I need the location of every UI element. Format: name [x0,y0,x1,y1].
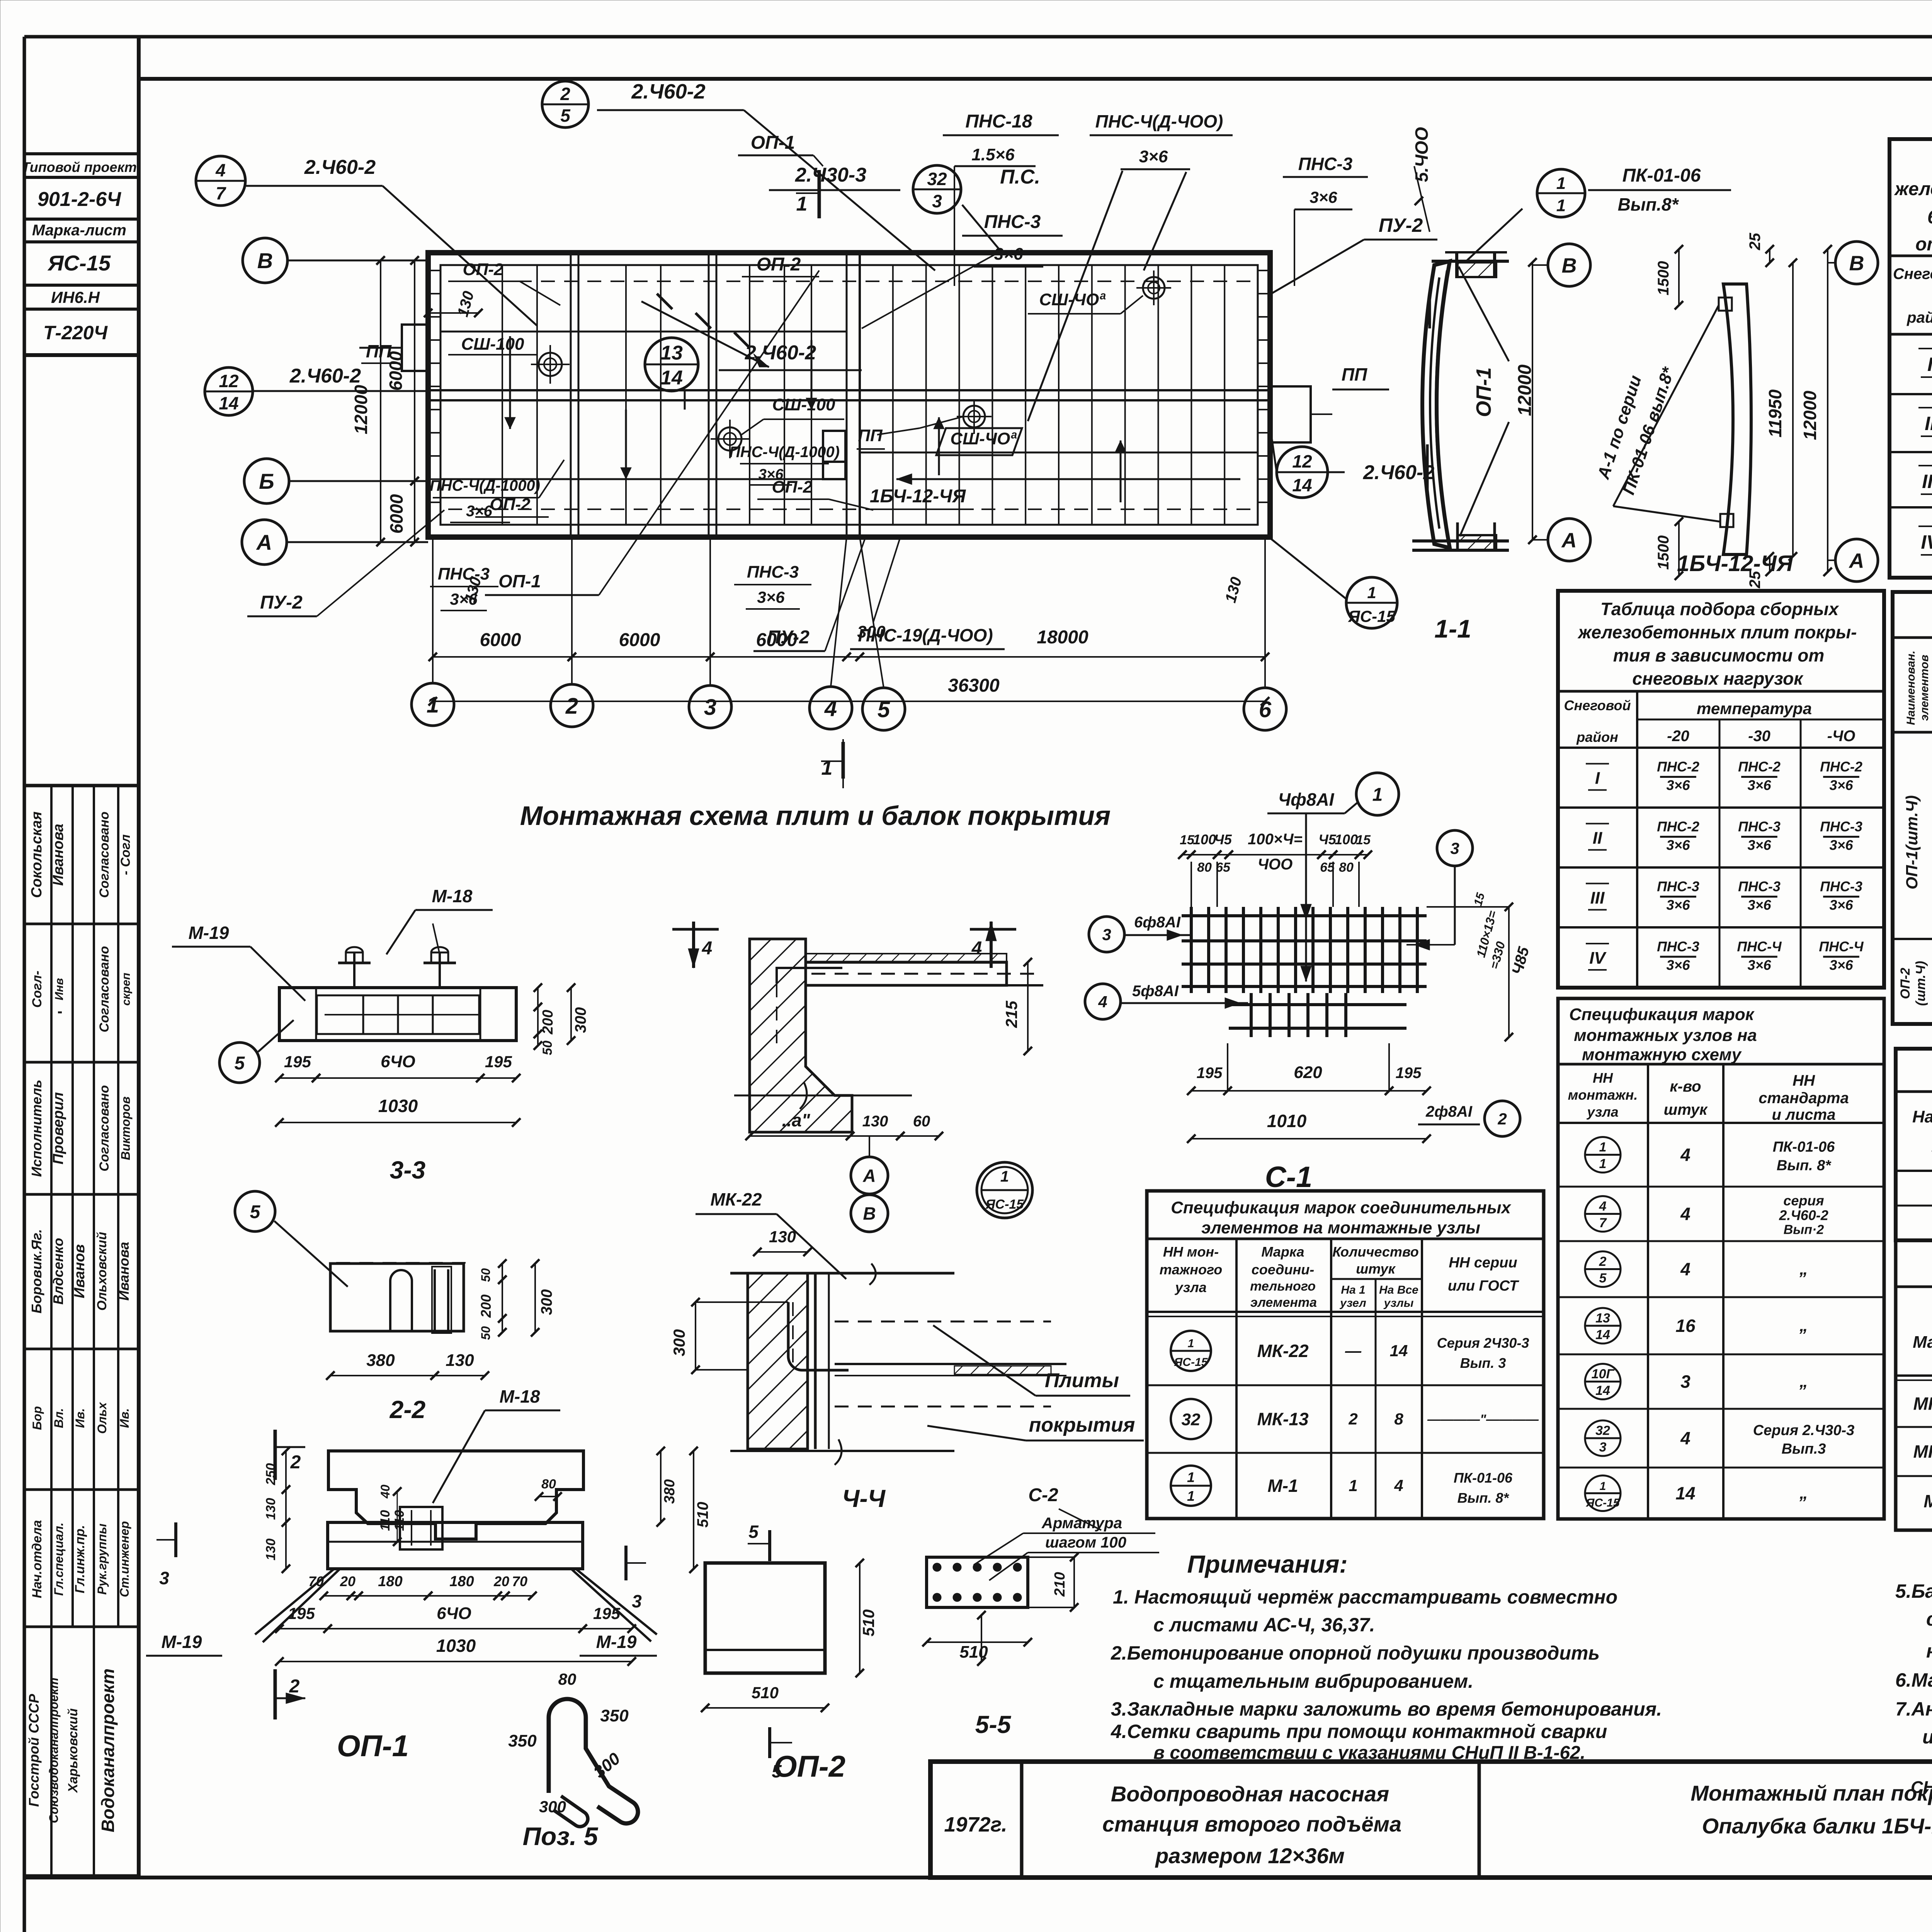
circle 1/АС-15 double [977,1162,1032,1218]
svg-text:Согласовано: Согласовано [97,1085,112,1172]
svg-text:Ив.: Ив. [117,1408,131,1428]
svg-text:ПК-01-06: ПК-01-06 [1773,1139,1835,1155]
plan: СШ-100 symbol center [718,427,742,451]
svg-text:ΠНС-2: ΠНС-2 [1657,759,1699,775]
svg-text:1500: 1500 [1655,536,1672,570]
svg-text:от нагрузок снегового мешка: от нагрузок снегового мешка [1915,234,1932,255]
rebar spec left rotated groups [1893,938,1932,940]
connector marks table outline [1147,1191,1544,1519]
node upper: wall hatched [750,939,852,1132]
svg-text:380: 380 [366,1351,395,1370]
svg-text:6000: 6000 [619,630,660,650]
svg-text:ПК-01-06: ПК-01-06 [1622,165,1701,186]
svg-text:3×6: 3×6 [1829,837,1853,853]
svg-text:монтажн.: монтажн. [1568,1087,1638,1103]
svg-text:3: 3 [704,695,716,720]
svg-text:3×6: 3×6 [1829,897,1853,913]
svg-text:МК-13: МК-13 [1257,1409,1308,1429]
svg-text:Марка: Марка [1913,1333,1932,1352]
dimension row 6000x3 + 300 + 18000 [433,656,572,658]
plan: СШ-40а symbol mid [963,406,985,427]
svg-text:901-2-6Ч: 901-2-6Ч [37,188,121,211]
svg-text:ПНС-Ч(Д-ЧОО): ПНС-Ч(Д-ЧОО) [1095,111,1223,131]
svg-text:температура: температура [1697,699,1812,718]
svg-text:12000: 12000 [1800,391,1820,440]
svg-text:5: 5 [250,1202,261,1222]
svg-text:Бор: Бор [30,1406,44,1430]
svg-text:Монтажный план покрытия.: Монтажный план покрытия. [1690,1781,1932,1805]
node upper: anchor bent into wall [777,968,842,983]
svg-text:СШ-ЧОª: СШ-ЧОª [1039,290,1106,309]
svg-text:2: 2 [290,1452,301,1473]
node lower: vertical beam face lines [814,1273,817,1449]
svg-text:3×6: 3×6 [1139,147,1168,166]
svg-text:ЯС-15: ЯС-15 [985,1197,1024,1212]
svg-text:серии ПК-01-06 выпуск8* только: серии ПК-01-06 выпуск8* только наличием … [1926,1608,1932,1630]
svg-text:6000: 6000 [480,630,521,650]
beam axis А circle right [1835,539,1878,582]
node upper: circles А В [851,1157,888,1194]
table podbora-2 data [1558,806,1884,809]
svg-text:300: 300 [538,1289,555,1315]
5-5: section rectangle with rebar dots [927,1557,1028,1607]
svg-text:штук: штук [1664,1101,1708,1118]
title block outline [930,1762,1932,1878]
svg-text:14: 14 [219,393,238,413]
svg-text:Ι: Ι [1927,354,1932,375]
svg-text:3×6: 3×6 [1666,897,1690,913]
svg-text:М-19: М-19 [189,923,229,943]
plan: wall hatch ticks left [428,270,440,271]
signature table grid [24,784,139,787]
svg-text:штук: штук [1356,1261,1396,1277]
svg-text:СШ-100: СШ-100 [461,335,524,354]
svg-text:3: 3 [1599,1440,1607,1455]
svg-text:2: 2 [289,1676,300,1697]
svg-text:Ольх: Ольх [95,1402,109,1434]
svg-text:12000: 12000 [1515,364,1535,416]
svg-text:2-2: 2-2 [389,1396,426,1423]
section mark 1 bottom [842,739,844,788]
inner frame left line / stamp column right edge [137,37,141,1878]
plan: СШ-100 symbol left [539,353,562,376]
node lower: wall hatched [748,1273,808,1449]
svg-text:ΠНС-3: ΠНС-3 [1657,879,1699,895]
svg-text:В: В [863,1204,876,1224]
svg-text:Иванова: Иванова [116,1242,132,1301]
svg-text:ΙΙΙ: ΙΙΙ [1590,889,1605,908]
montage nodes table outline [1558,998,1884,1519]
svg-text:НН: НН [1793,1072,1815,1089]
svg-text:Водоканалпроект: Водоканалпроект [98,1668,118,1832]
svg-text:с листами АС-Ч, 36,37.: с листами АС-Ч, 36,37. [1153,1614,1375,1636]
svg-text:ПНС-3: ПНС-3 [984,212,1041,232]
svg-text:1: 1 [821,757,833,779]
svg-text:Таблица подбора сборных: Таблица подбора сборных [1600,599,1840,619]
svg-text:ОП-1: ОП-1 [1472,367,1495,417]
beam dim 11950 [1792,263,1794,556]
svg-text:-ЧО: -ЧО [1827,728,1855,745]
svg-text:620: 620 [1294,1063,1322,1082]
svg-text:5: 5 [235,1053,245,1073]
detail 3-3: end blocks [279,988,316,1041]
svg-text:5.ЧОО: 5.ЧОО [1412,127,1432,182]
node upper: bottom break line [734,1095,912,1097]
svg-text:ΙΙ: ΙΙ [1593,829,1602,848]
svg-text:Влдсенко: Влдсенко [50,1238,66,1305]
svg-text:ΙΙ: ΙΙ [1925,413,1932,434]
detail 2-2: dim 1030 [279,1661,632,1662]
plan: building outline inner wall line [440,265,1258,525]
svg-text:ПУ-2: ПУ-2 [1379,214,1423,236]
svg-text:ИН6.Н: ИН6.Н [51,288,100,306]
svg-text:серия: серия [1783,1193,1824,1209]
svg-text:СШ-100: СШ-100 [772,395,835,414]
svg-text:15: 15 [1356,833,1371,847]
svg-text:200: 200 [540,1010,556,1034]
detail 2-2: dim 195 640 195 bottom [279,1628,328,1629]
svg-text:Б: Б [259,469,274,493]
svg-text:Ч5: Ч5 [1318,832,1336,847]
svg-text:1030: 1030 [436,1636,476,1656]
svg-text:50: 50 [479,1268,493,1282]
svg-text:Примечания:: Примечания: [1187,1550,1347,1578]
svg-text:М-18: М-18 [500,1386,540,1406]
svg-text:Плиты: Плиты [1045,1369,1119,1392]
svg-text:тия в зависимости от: тия в зависимости от [1613,645,1825,665]
С-1: top dim chain 15 100 45 100x4=400 45 100 15 [1182,854,1191,855]
svg-text:5-5: 5-5 [975,1711,1012,1738]
svg-text:180: 180 [449,1573,474,1590]
svg-text:Марка-лист: Марка-лист [32,222,126,239]
svg-text:Нач.отдела: Нач.отдела [30,1520,44,1598]
beam dim 12000 [1827,249,1828,572]
svg-text:МК-22: МК-22 [710,1189,762,1209]
table podbora-1 header lines [1889,255,1932,257]
axis extension lines down to circles [432,537,434,683]
node 4-4 upper: section marks 4 [692,922,695,968]
svg-text:14: 14 [1292,475,1312,495]
svg-text:1972г.: 1972г. [944,1813,1007,1836]
plan: left vertical dimension 12000 [380,260,381,542]
svg-text:С-1: С-1 [1265,1161,1312,1194]
svg-text:70: 70 [512,1573,527,1589]
inner frame bottom line [24,1876,1932,1879]
leader circle 12/14 right of plan [1277,447,1328,498]
svg-text:ОП-2: ОП-2 [774,1749,845,1783]
node upper: dim 215 [1027,962,1029,1051]
svg-text:1: 1 [1349,1476,1357,1495]
sheet outer border [24,35,1932,39]
detail 3-3: inner vertical ribs [362,995,364,1034]
inner frame top line [139,77,1932,81]
svg-text:3×6: 3×6 [450,590,478,608]
svg-text:5.Балка 1БЧ-12-ЧЯ отличается о: 5.Балка 1БЧ-12-ЧЯ отличается от балки 1Б… [1895,1580,1932,1602]
svg-text:1: 1 [1372,784,1383,805]
plan: horizontal arrow row bottom right [896,478,1240,480]
svg-text:узла: узла [1586,1104,1618,1120]
svg-text:80: 80 [558,1670,577,1688]
svg-text:ΠНС-3: ΠНС-3 [1738,819,1781,835]
svg-text:Согл-: Согл- [30,971,44,1008]
svg-text:„: „ [1799,1484,1808,1503]
svg-text:3: 3 [632,1591,642,1611]
ОП-2: dim 510 right [859,1563,861,1673]
svg-text:МК-22: МК-22 [1913,1394,1932,1414]
svg-text:Опалубка балки 1БЧ-12-ЧЯ.: Опалубка балки 1БЧ-12-ЧЯ. [1702,1814,1932,1838]
С-1: mesh lower grid [1250,993,1253,1037]
svg-text:-20: -20 [1667,728,1689,745]
ОП-2: dim 510 bottom [705,1707,825,1709]
svg-text:8: 8 [1394,1410,1403,1428]
svg-text:250: 250 [264,1463,278,1486]
svg-text:200: 200 [478,1294,494,1318]
svg-text:СШ-ЧОª: СШ-ЧОª [950,429,1017,448]
svg-text:ΠНС-2: ΠНС-2 [1820,759,1862,775]
detail 2-2: diagonal braces [255,1569,334,1634]
section 1-1: dim 12000 vertical [1532,262,1533,540]
svg-text:ΠНС-3: ΠНС-3 [1820,879,1862,895]
plan: secondary horizontal line upper-left bay [440,331,846,333]
svg-text:На Все: На Все [1379,1284,1418,1296]
svg-text:к-во: к-во [1670,1078,1701,1095]
svg-text:М-1: М-1 [1923,1491,1932,1511]
beam dim 1500 top [1678,249,1680,305]
detail 2-2: section mark 2 top-left [274,1430,277,1480]
detail 5: dashed top line [336,1262,466,1264]
plan: dashed plate edge bottom [448,509,1252,510]
svg-text:4: 4 [1680,1259,1690,1279]
svg-text:3×6: 3×6 [466,503,493,520]
svg-text:195: 195 [288,1604,315,1622]
detail 5: dim 380 130 below [330,1375,435,1376]
plan: horizontal line right half [860,452,1258,454]
dimension row 36300 [433,701,1265,702]
svg-text:5: 5 [560,105,571,126]
svg-text:С-2: С-2 [1028,1485,1058,1505]
node upper: dims а 130 60 [750,1135,850,1137]
table podbora-2 outline [1558,591,1884,988]
svg-text:180: 180 [378,1573,402,1590]
svg-text:Рук.группы: Рук.группы [95,1524,109,1595]
svg-text:ПНС-3: ПНС-3 [1298,154,1353,174]
section 1-1: leader 1/1 ПК-01-06 Вып.8* [1537,169,1585,217]
plan: axis 4-5 double line [846,253,848,537]
svg-text:3: 3 [1680,1372,1690,1392]
svg-text:ПНС-3: ПНС-3 [438,565,490,583]
plan: vertical arrows [509,336,511,429]
svg-text:32: 32 [1595,1423,1610,1438]
detail 2-2: dims bottom 70 20 180 180 20 70 [324,1595,351,1597]
svg-text:300: 300 [857,622,886,641]
svg-text:НН мон-: НН мон- [1163,1244,1219,1260]
svg-text:6000: 6000 [386,351,406,391]
detail 2-2: section mark 3 marks [174,1522,177,1557]
svg-text:„: „ [1799,1316,1808,1335]
table podbora-2 header [1558,690,1884,693]
svg-text:40: 40 [378,1485,392,1499]
svg-text:130: 130 [862,1113,888,1130]
leader circle 12/14 2.460-2 [205,367,253,415]
svg-text:1: 1 [1187,1469,1195,1485]
plan: plate joints right half verticals [892,265,894,525]
svg-text:Чф8АΙ: Чф8АΙ [1278,789,1335,810]
svg-text:Иванова: Иванова [50,824,66,886]
svg-text:Вып.3: Вып.3 [1782,1441,1826,1457]
svg-text:и соединительных элементов ос: и соединительных элементов осуществляетс… [1922,1726,1932,1748]
svg-text:ных марок А-1.: ных марок А-1. [1926,1640,1932,1662]
svg-text:2: 2 [1348,1410,1357,1428]
svg-text:ΠНС-3: ΠНС-3 [1738,879,1781,895]
svg-text:Поз. 5: Поз. 5 [523,1822,599,1850]
svg-text:510: 510 [959,1643,988,1662]
svg-text:510: 510 [694,1502,711,1528]
detail 5: dims right 50/200/50 300 [502,1264,503,1280]
svg-text:4: 4 [1680,1428,1690,1448]
svg-text:195: 195 [485,1053,512,1071]
svg-text:3×6: 3×6 [1666,837,1690,853]
svg-text:210: 210 [1052,1572,1068,1597]
С-1: mesh upper horizontal bars [1182,914,1427,917]
svg-text:Серия 2.Ч30-3: Серия 2.Ч30-3 [1753,1422,1855,1439]
svg-text:А: А [1849,549,1864,572]
svg-text:3×6: 3×6 [1666,957,1690,973]
svg-text:Иванов: Иванов [71,1244,88,1298]
detail 3-3: dim 195 640 195 [279,1077,316,1079]
svg-text:110: 110 [378,1510,393,1531]
svg-text:16: 16 [1675,1316,1696,1336]
svg-text:32: 32 [1182,1410,1201,1429]
vedomost table outline [1896,1240,1932,1530]
svg-text:10Г: 10Г [1592,1367,1615,1381]
plan: axis 3 line [708,253,710,537]
svg-text:станция второго подъёма: станция второго подъёма [1102,1812,1401,1836]
rebar spec table outline [1893,592,1932,1024]
svg-text:Наименование: Наименование [1912,1107,1932,1126]
svg-text:100: 100 [1193,832,1216,847]
svg-text:ПП: ПП [1342,364,1367,384]
svg-text:1: 1 [1600,1480,1606,1493]
svg-text:скреп: скреп [120,973,133,1005]
svg-text:6ЧО: 6ЧО [437,1604,471,1623]
svg-text:стандарта: стандарта [1759,1090,1849,1107]
svg-text:МК-22: МК-22 [1257,1341,1308,1361]
svg-text:80: 80 [541,1477,556,1492]
svg-text:ОП-1: ОП-1 [751,133,795,153]
svg-text:6ЧО: 6ЧО [381,1052,415,1071]
svg-text:Снеговой: Снеговой [1893,265,1932,282]
svg-text:4: 4 [1599,1199,1607,1214]
svg-text:6000: 6000 [386,494,406,534]
svg-text:район: район [1576,729,1618,745]
svg-text:ЧОО: ЧОО [1258,856,1293,873]
svg-text:110: 110 [392,1510,407,1531]
svg-text:Союзводоканалпроект: Союзводоканалпроект [47,1678,61,1823]
detail 2-2: bottom pad [328,1522,583,1569]
Поз.5: bent bar shape [549,1699,638,1823]
svg-text:2.Ч60-2: 2.Ч60-2 [745,342,816,364]
svg-text:размером 12×36м: размером 12×36м [1155,1844,1345,1868]
section 1-1: bottom support hatched [1458,535,1496,550]
section 1-1: top support hatched [1458,262,1496,277]
svg-text:300: 300 [539,1798,566,1816]
svg-text:Ι: Ι [1595,769,1600,788]
svg-text:2.Бетонирование опорной подушк: 2.Бетонирование опорной подушки производ… [1111,1642,1600,1664]
svg-text:4: 4 [1680,1145,1690,1165]
svg-text:узлы: узлы [1383,1297,1414,1310]
svg-text:Проверил: Проверил [50,1092,66,1165]
stamp column field lines [24,152,139,155]
beam embedded mark top [1719,298,1732,311]
svg-text:М-19: М-19 [596,1632,637,1652]
svg-text:Наименован.: Наименован. [1905,651,1917,725]
section 1-1: ОП-1 curved formwork outline [1422,261,1450,548]
svg-text:5: 5 [748,1522,759,1542]
montage nodes header [1647,1064,1649,1519]
svg-text:2ф8АΙ: 2ф8АΙ [1425,1103,1473,1120]
svg-text:3: 3 [159,1568,169,1588]
svg-text:ПК-01-06: ПК-01-06 [1454,1470,1513,1486]
table podbora-1 outline [1889,139,1932,578]
plan: wall hatch ticks right [1258,270,1270,271]
svg-text:300: 300 [670,1329,688,1356]
svg-text:3×6: 3×6 [1666,777,1690,793]
svg-text:350: 350 [508,1731,537,1750]
С-1: mesh upper grid vertical bars [1190,907,1193,993]
detail 3-3: bolts on top [353,952,355,988]
svg-text:элемента: элемента [1250,1295,1317,1310]
svg-text:3×6: 3×6 [1747,897,1771,913]
svg-text:60: 60 [913,1113,930,1130]
svg-text:510: 510 [859,1609,878,1636]
svg-text:6.Маркировка плит дана для ΙΙΙ: 6.Маркировка плит дана для ΙΙΙ географ. … [1895,1669,1932,1691]
plan: left vertical dimension line 6000/6000 [414,260,415,481]
svg-text:3×6: 3×6 [1310,188,1337,206]
plan: axis Б beam double line [428,389,1270,391]
С-1: right leader circle 3 [1437,830,1473,866]
detail 3-3: circle 5 leader [219,1043,260,1083]
svg-text:4: 4 [1680,1204,1690,1224]
svg-text:Монтажная схема плит и бал: Монтажная схема плит и балок покрытия [520,801,1111,831]
svg-text:300: 300 [572,1007,589,1033]
svg-text:М-19: М-19 [162,1632,202,1652]
leader circle 4/7 2.460-2 [196,156,245,206]
svg-text:20: 20 [340,1573,355,1589]
svg-text:50: 50 [540,1041,555,1055]
С-1: left leader circle 4 5ф8АI [1085,984,1121,1019]
svg-text:195: 195 [284,1053,311,1071]
svg-text:Викторов: Викторов [119,1097,133,1160]
svg-text:монтажных узлов на: монтажных узлов на [1574,1026,1757,1045]
svg-text:ЯС-15: ЯС-15 [47,251,111,275]
svg-text:380: 380 [662,1479,678,1503]
svg-text:ЯС-15: ЯС-15 [1586,1497,1620,1509]
svg-text:2.Ч60-2: 2.Ч60-2 [1779,1207,1828,1223]
svg-text:ПНС-Ч(Д-1000): ПНС-Ч(Д-1000) [430,477,540,494]
svg-text:„: „ [1799,1372,1808,1391]
svg-text:510: 510 [752,1684,779,1702]
ОП-2: section mark 5 top [768,1530,771,1561]
svg-text:7: 7 [1599,1216,1607,1230]
table podbora-1 data rows [1889,393,1932,395]
svg-text:..а": ..а" [782,1110,811,1130]
svg-text:ΠНС-Ч: ΠНС-Ч [1819,939,1864,954]
svg-text:и листа: и листа [1772,1106,1836,1123]
svg-text:195: 195 [593,1604,621,1622]
svg-text:3×6: 3×6 [1747,957,1771,973]
svg-text:П.С.: П.С. [1000,166,1040,188]
svg-text:соедини-: соедини- [1252,1262,1314,1277]
